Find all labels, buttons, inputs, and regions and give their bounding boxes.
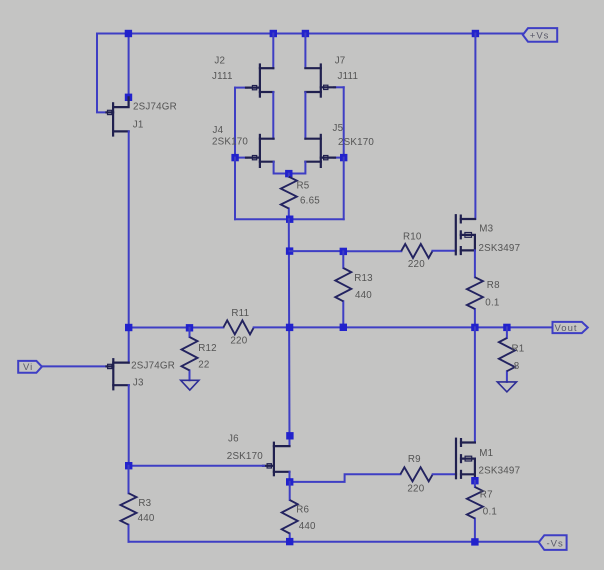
label J4 ref (213, 125, 224, 136)
label R6 value (299, 521, 316, 532)
label J6 name (227, 451, 263, 462)
wire J3 source column (128, 385, 130, 466)
label J2 ref (214, 56, 225, 67)
wire Vi to J3 gate (42, 365, 106, 367)
svg-text:0.1: 0.1 (485, 298, 499, 309)
ground below R1 (497, 382, 516, 392)
wire J2 source to J4 drain (272, 92, 274, 139)
label R3 ref (138, 498, 151, 509)
transistor J3 2SJ74GR (107, 359, 129, 389)
label R1 ref (512, 344, 525, 355)
label J1 ref (133, 120, 144, 131)
label R8 ref (487, 280, 500, 291)
resistor R5 (281, 174, 297, 220)
node M column crossing (471, 324, 478, 331)
wire bottom rail (129, 541, 539, 543)
flag -Vs (539, 535, 567, 550)
label M1 name (479, 466, 521, 477)
wire J7 source to J5 drain (304, 92, 306, 138)
svg-text:M1: M1 (479, 448, 493, 459)
wire J5 source path (289, 162, 306, 174)
svg-text:+Vs: +Vs (530, 31, 550, 42)
label R8 value (485, 298, 499, 309)
flag +Vs (523, 28, 557, 42)
label J7 ref (335, 56, 346, 67)
svg-text:R11: R11 (231, 308, 249, 319)
transistor M1 2SK3497 (456, 439, 475, 481)
flag Vi (18, 361, 42, 373)
resistor R8 (467, 250, 483, 327)
node R13 top (340, 248, 347, 255)
svg-text:R8: R8 (487, 280, 500, 291)
resistor R6 (282, 482, 298, 542)
svg-text:R10: R10 (403, 232, 422, 243)
label R10 value (408, 259, 425, 270)
svg-text:220: 220 (408, 259, 425, 270)
wire Vout line right (254, 326, 553, 328)
label Vout (555, 323, 578, 334)
resistor R9 (400, 467, 456, 481)
resistor R11 (223, 320, 253, 334)
svg-text:J7: J7 (335, 56, 346, 67)
svg-text:2SJ74GR: 2SJ74GR (131, 361, 175, 372)
wire left loop drop (234, 158, 236, 220)
flag Vout (553, 322, 588, 333)
resistor R13 (335, 251, 351, 327)
svg-text:440: 440 (299, 521, 316, 532)
label R7 value (483, 507, 497, 518)
svg-text:0.1: 0.1 (483, 507, 497, 518)
label R12 value (198, 360, 209, 371)
node center R10 branch (286, 247, 293, 254)
resistor R12 (182, 328, 198, 381)
wire loop bottom (235, 218, 344, 220)
node J4 gate junction (231, 154, 238, 161)
svg-text:J3: J3 (133, 378, 144, 389)
label J3 name (131, 361, 175, 372)
label J4 name (212, 137, 248, 148)
svg-text:440: 440 (138, 513, 155, 524)
svg-text:2SJ74GR: 2SJ74GR (133, 102, 177, 113)
label J3 ref (133, 378, 144, 389)
label R13 ref (354, 273, 373, 284)
svg-text:J6: J6 (228, 434, 239, 445)
svg-text:Vout: Vout (555, 323, 578, 334)
svg-text:J111: J111 (212, 71, 233, 82)
label +Vs (530, 31, 550, 42)
svg-text:2SK3497: 2SK3497 (479, 243, 521, 254)
label J5 name (338, 137, 374, 148)
svg-text:R12: R12 (198, 343, 217, 354)
node common source R5 top (285, 170, 292, 177)
wire M1 column (474, 327, 476, 442)
svg-text:6.65: 6.65 (300, 195, 320, 206)
label R13 value (355, 290, 372, 301)
svg-text:2SK3497: 2SK3497 (479, 466, 521, 477)
wire J2 gate drop (234, 88, 236, 158)
label R3 value (138, 513, 155, 524)
svg-text:8: 8 (514, 361, 520, 372)
label R7 ref (480, 490, 493, 501)
svg-text:R9: R9 (408, 454, 421, 465)
svg-text:Vi: Vi (23, 362, 33, 373)
wire J1 source to mid junction (128, 131, 130, 362)
svg-text:2SK170: 2SK170 (338, 137, 374, 148)
svg-text:R6: R6 (296, 504, 309, 515)
resistor R3 (121, 466, 137, 542)
transistor J4 2SK170 (235, 135, 274, 167)
svg-text:-Vs: -Vs (547, 539, 564, 550)
label M1 ref (479, 448, 493, 459)
svg-text:22: 22 (198, 360, 209, 371)
wire top rail (97, 33, 523, 35)
node R13 bottom (340, 324, 347, 331)
wire right loop drop (343, 158, 345, 220)
resistor R7 (467, 481, 483, 542)
node J6 source junction (286, 478, 293, 485)
label M3 name (479, 243, 521, 254)
svg-text:J5: J5 (333, 123, 344, 134)
ground below R12 (181, 380, 199, 390)
node Vout line left T (125, 324, 132, 331)
node M1 source R7 (471, 477, 478, 484)
label J1 name (133, 102, 177, 113)
svg-text:440: 440 (355, 290, 372, 301)
resistor R1 (499, 327, 515, 382)
wire M3 column (474, 34, 476, 220)
node R12 top (186, 324, 193, 331)
transistor J7 J111 (305, 65, 343, 97)
label Vi (23, 362, 33, 373)
wire R10 line left (290, 250, 402, 252)
label -Vs (547, 539, 564, 550)
wire J7 column top (304, 34, 306, 68)
label R5 ref (297, 180, 310, 191)
node R7 bottom (471, 538, 478, 545)
svg-text:J2: J2 (214, 56, 225, 67)
transistor J2 J111 (235, 65, 273, 97)
wire J4 source path (274, 162, 289, 174)
label R11 ref (231, 308, 249, 319)
svg-text:R5: R5 (297, 180, 310, 191)
label J2 name (212, 71, 233, 82)
wire J6 source to R9 (290, 472, 401, 482)
node top rail M3 (472, 30, 479, 37)
label R6 ref (296, 504, 309, 515)
wire center column (288, 219, 291, 446)
label R9 ref (408, 454, 421, 465)
node top rail J1 (125, 30, 132, 37)
svg-text:J4: J4 (213, 125, 224, 136)
label R10 ref (403, 232, 422, 243)
label J7 name (338, 71, 359, 82)
svg-text:2SK170: 2SK170 (212, 137, 248, 148)
node loop bottom center (286, 216, 293, 223)
wire J6 gate line (129, 465, 264, 467)
node top rail J2 (270, 30, 277, 37)
svg-text:2SK170: 2SK170 (227, 451, 263, 462)
label J5 ref (333, 123, 344, 134)
node J1 drain (125, 94, 132, 101)
svg-text:220: 220 (407, 483, 424, 494)
svg-text:220: 220 (230, 336, 247, 347)
transistor J1 2SJ74GR (107, 97, 129, 135)
svg-text:M3: M3 (479, 224, 493, 235)
node R6 bottom (286, 538, 293, 545)
wire left drop to J1 gate (97, 34, 106, 113)
svg-text:J111: J111 (338, 71, 359, 82)
node top rail J7 (302, 30, 309, 37)
transistor J6 2SK170 (263, 443, 290, 476)
wire J2 column top (272, 34, 274, 69)
node R1 top (503, 324, 510, 331)
svg-text:R1: R1 (512, 344, 525, 355)
resistor R10 (401, 244, 456, 258)
node J6 drain (286, 432, 293, 439)
transistor M3 2SK3497 (456, 215, 475, 254)
svg-text:R3: R3 (138, 498, 151, 509)
label M3 ref (479, 224, 493, 235)
svg-text:J1: J1 (133, 120, 144, 131)
label R12 ref (198, 343, 217, 354)
node J5 gate junction (340, 154, 347, 161)
label R11 value (230, 336, 247, 347)
label R1 value (514, 361, 520, 372)
svg-text:R13: R13 (354, 273, 373, 284)
node center crossing (286, 324, 293, 331)
svg-text:R7: R7 (480, 490, 493, 501)
label R9 value (407, 483, 424, 494)
wire Vout line left (129, 327, 224, 329)
wire J7 gate drop (343, 87, 345, 157)
label R5 value (300, 195, 320, 206)
label J6 ref (228, 434, 239, 445)
wire J1 drain column (128, 34, 130, 100)
node J6 gate T (125, 462, 132, 469)
transistor J5 2SK170 (305, 135, 343, 167)
